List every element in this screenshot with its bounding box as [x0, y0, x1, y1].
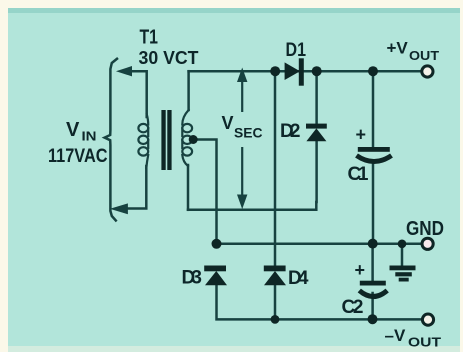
svg-text:SEC: SEC: [234, 126, 263, 141]
svg-text:–V: –V: [385, 326, 406, 345]
svg-text:D1: D1: [286, 40, 307, 61]
svg-text:V: V: [222, 113, 234, 133]
wire C1 branch: [372, 71, 375, 244]
wire ground stem: [401, 244, 404, 266]
node C1 bottom C2 top junction: [368, 239, 378, 249]
wire C2 branch: [371, 244, 374, 320]
terminal GND: [422, 238, 433, 249]
svg-text:IN: IN: [82, 129, 97, 144]
svg-text:30 VCT: 30 VCT: [139, 48, 199, 68]
wire center tap to GND rail: [196, 140, 217, 245]
panel bottom light strip: [8, 346, 460, 352]
node D4 bottom junction: [271, 315, 280, 324]
wire primary top lead: [128, 71, 147, 117]
svg-text:D2: D2: [280, 121, 301, 142]
svg-text:D3: D3: [182, 268, 203, 289]
diode D4: [264, 266, 286, 286]
brace 117VAC input: [105, 59, 117, 221]
V_SEC arrow: [238, 69, 247, 208]
wire secondary top lead: [187, 71, 190, 110]
svg-text:T1: T1: [140, 27, 159, 49]
node D1 anode junction: [270, 66, 280, 76]
node D1 cathode junction: [312, 66, 322, 76]
ground: [390, 266, 416, 282]
svg-text:C1: C1: [348, 164, 369, 185]
arrow primary top: [118, 67, 132, 76]
svg-text:+V: +V: [387, 39, 409, 58]
transformer T1 primary winding: [138, 114, 148, 168]
wire GND rail: [217, 243, 421, 246]
capacitor C1: [357, 147, 392, 162]
svg-text:117VAC: 117VAC: [48, 146, 108, 167]
wire secondary bottom lead: [187, 165, 190, 210]
svg-text:D4: D4: [288, 268, 309, 289]
svg-text:C2: C2: [342, 297, 364, 318]
panel top shadow edge: [8, 8, 460, 13]
wire net A vertical to D4: [274, 71, 277, 265]
transformer T1 core: [161, 110, 171, 170]
svg-text:+: +: [356, 125, 367, 145]
wire -V bottom rail: [217, 285, 422, 319]
svg-text:OUT: OUT: [409, 49, 439, 63]
node GND rail left junction: [212, 239, 222, 249]
svg-text:+: +: [355, 260, 366, 280]
arrow primary bottom: [111, 204, 127, 214]
transformer T1 secondary winding: [182, 110, 192, 166]
svg-text:OUT: OUT: [408, 336, 441, 350]
node C1 top junction: [368, 66, 378, 76]
wire D2 branch: [315, 71, 318, 202]
wire net B rail: [188, 202, 316, 210]
svg-text:GND: GND: [406, 218, 444, 240]
wire D4 anode to -V rail: [274, 285, 277, 319]
diode D1: [285, 62, 300, 80]
node C2 bottom junction: [368, 314, 378, 324]
capacitor C2: [359, 281, 387, 297]
node ground stem junction: [398, 240, 407, 249]
svg-text:V: V: [66, 119, 80, 141]
wire +V top rail: [189, 70, 421, 73]
diode D2: [306, 124, 327, 142]
wire primary bottom lead: [124, 166, 146, 209]
terminal -VOUT: [422, 314, 433, 325]
diode D3: [204, 266, 227, 286]
node center tap: [189, 135, 198, 144]
terminal +VOUT: [422, 66, 433, 77]
